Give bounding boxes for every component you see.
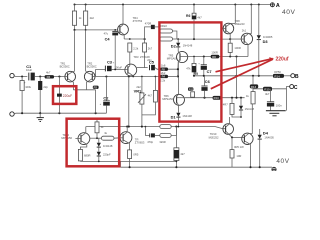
node dots rail [96, 126, 179, 128]
resistor R15 + terminal C [253, 85, 298, 96]
resistor 1k (box2 top) [95, 118, 104, 138]
red callout arrowhead [269, 57, 274, 61]
wire box2 bottom row [80, 160, 176, 162]
svg-text:1N4005: 1N4005 [264, 135, 274, 139]
resistor R11 [188, 87, 195, 97]
svg-text:C6: C6 [205, 79, 211, 84]
terminal A (+40V) [270, 3, 280, 9]
ground terminal [10, 112, 14, 116]
svg-text:680R: 680R [84, 153, 90, 157]
wirewound resistor pair in box (parallel) [159, 24, 177, 41]
svg-text:R13: R13 [214, 96, 220, 100]
capacitor + resistor NFB lower branch [145, 127, 176, 144]
svg-text:BC550C: BC550C [87, 65, 97, 69]
red highlight box2 (bottom left) [67, 119, 120, 167]
wire input row y=76.5 [14, 75, 65, 78]
capacitor C2 220uF (in box1) [57, 94, 72, 98]
resistor below (bias) [143, 39, 153, 68]
wire y=29.9 [74, 29, 118, 31]
svg-text:47k: 47k [186, 66, 191, 70]
transistor TR8 MJE243 [222, 5, 245, 40]
svg-text:B: B [295, 74, 299, 80]
svg-text:MJE252: MJE252 [209, 135, 219, 139]
resistor 4k7 mid [142, 77, 158, 115]
svg-text:R15: R15 [264, 87, 270, 91]
svg-text:R6: R6 [186, 14, 190, 18]
transistor TR5 MPSA06 [167, 51, 188, 94]
svg-text:100n: 100n [276, 104, 282, 108]
svg-text:D4: D4 [263, 131, 269, 136]
wire driver rail y=126.6 [86, 126, 160, 128]
svg-text:22n: 22n [147, 58, 152, 62]
capacitor C6 [201, 76, 210, 98]
svg-text:10R: 10R [236, 154, 241, 158]
trimmer VR1 [134, 77, 146, 127]
svg-text:4k7: 4k7 [46, 71, 51, 75]
svg-text:470p: 470p [147, 140, 153, 144]
ground symbol right [266, 89, 287, 116]
wire to Q2 collector [86, 30, 87, 73]
svg-text:4k7: 4k7 [265, 92, 270, 96]
resistor 470R [145, 21, 159, 29]
svg-text:1N4148: 1N4148 [245, 107, 255, 111]
svg-text:100R: 100R [234, 46, 240, 50]
wire bottom negative rail [121, 161, 273, 167]
wire feedback row y=76.5 to R4 [95, 76, 160, 78]
node dots bottom rail [129, 166, 261, 168]
svg-text:22p: 22p [43, 85, 48, 89]
red callout line lower (to C6) [211, 59, 273, 89]
capacitor C5 22n [147, 58, 157, 70]
ground symbol [37, 113, 44, 121]
transistor TR10 MJE253 [209, 117, 234, 139]
transistor TR13 ZTX653 [120, 127, 145, 150]
node dots input row [21, 75, 60, 77]
svg-text:ZTX653: ZTX653 [135, 141, 145, 145]
svg-text:1N4148: 1N4148 [183, 44, 193, 48]
resistor TR13 emitter 68R [128, 150, 139, 167]
red callout line upper (to C7) [216, 59, 273, 72]
svg-text:2k7: 2k7 [148, 46, 153, 50]
resistor VAS load 2k2 [128, 38, 139, 66]
resistor R6 4k7 [186, 5, 202, 40]
wire TR11 base row [232, 136, 244, 138]
node rail junction dots [74, 4, 260, 6]
diode mid 1N4148 [239, 98, 255, 118]
transistor TR12 (in box2) [61, 127, 89, 150]
resistor R1 100k [20, 77, 32, 114]
wire VAS output vertical [128, 77, 130, 127]
svg-text:220uf: 220uf [276, 57, 289, 63]
svg-text:0R22: 0R22 [160, 24, 167, 28]
wire y=39.2 to TR8 emitter node [177, 38, 230, 40]
diode D3 1N4005 [257, 5, 273, 76]
svg-text:C4: C4 [105, 37, 111, 42]
node dots y=75.8 [193, 75, 260, 77]
resistor horizontal (box2) [90, 131, 120, 140]
wire y=97.7 bias row [185, 97, 245, 99]
svg-text:2.2k: 2.2k [160, 79, 166, 83]
svg-text:220pF: 220pF [103, 153, 111, 157]
resistor row R5 [157, 64, 178, 72]
diode D4 1N4005 [258, 129, 275, 167]
resistor R3 [73, 86, 98, 114]
svg-text:TR3: TR3 [133, 55, 139, 59]
svg-text:40V: 40V [282, 9, 296, 16]
svg-text:47u: 47u [104, 32, 109, 36]
wire up to 470R [145, 27, 151, 39]
svg-text:10uF: 10uF [26, 68, 32, 72]
svg-text:1N4148: 1N4148 [182, 114, 192, 118]
capacitor C1 10uF [24, 64, 35, 85]
capacitor 100n right [267, 88, 282, 111]
svg-text:2k1: 2k1 [242, 29, 247, 33]
wire to Q1 collector [74, 30, 76, 72]
node dots y=97.7 [203, 97, 242, 99]
node dots ground row [21, 112, 97, 114]
svg-text:4k7: 4k7 [180, 152, 185, 156]
capacitor C4 [104, 30, 119, 70]
transistor TR11 [234, 104, 253, 167]
resistor R7 1k [72, 5, 82, 30]
capacitor C7 [198, 57, 211, 76]
capacitor C3 100uF [96, 59, 125, 76]
node dots y=39.2 [177, 38, 231, 40]
node dot C4 join [114, 69, 116, 71]
resistor R13 mid [213, 96, 229, 107]
svg-text:4k7: 4k7 [148, 94, 153, 98]
resistor row R4 [160, 71, 168, 83]
svg-text:MPSA56: MPSA56 [162, 97, 173, 101]
diode D1 1N4148 [171, 113, 193, 127]
svg-text:100k: 100k [25, 85, 31, 89]
red highlight box1 (C2 220uF) [53, 86, 76, 104]
resistor NFB top [160, 125, 171, 129]
svg-text:1k8: 1k8 [161, 64, 166, 68]
wire box1 vertical x=59.4 [58, 77, 60, 114]
diodes bias (box2) [97, 138, 113, 161]
svg-text:R4: R4 [162, 75, 166, 79]
transistor TR3 ZTX108 [125, 55, 150, 77]
svg-text:C7: C7 [207, 69, 212, 74]
resistor 68R [230, 98, 241, 117]
svg-text:R3: R3 [94, 86, 98, 90]
wire ground row y=113.2 [14, 112, 106, 114]
resistor R13 right chain [246, 76, 258, 104]
red highlight box big (center) [159, 22, 221, 121]
transistor TR1 BC550C [60, 61, 76, 89]
svg-text:4k7: 4k7 [197, 15, 202, 19]
svg-text:2k2: 2k2 [161, 71, 166, 75]
resistor 10R TR10 emitter [230, 137, 241, 167]
resistor R2 4k7 [45, 71, 54, 80]
svg-text:470R: 470R [145, 21, 151, 25]
svg-text:D3: D3 [263, 39, 269, 44]
svg-text:D1: D1 [171, 114, 177, 119]
transistor TR4 ZTX753 [118, 5, 143, 40]
svg-text:C: C [294, 85, 298, 91]
svg-text:R8: R8 [212, 55, 216, 59]
wire y=75.8 bootstrap/output row [194, 75, 273, 77]
svg-text:R11: R11 [189, 87, 194, 91]
svg-text:R2: R2 [47, 75, 51, 79]
svg-text:0R5: 0R5 [133, 152, 138, 156]
diode D2 1N4148 [171, 39, 193, 51]
node R5/R4 join vertical [168, 62, 179, 77]
node dot [144, 38, 146, 40]
svg-text:1N4148: 1N4148 [103, 144, 113, 148]
input terminal [10, 73, 14, 77]
wire top positive rail [75, 4, 271, 6]
transistor TR6 MPSA56 (bias) [162, 94, 185, 113]
svg-text:BC550C: BC550C [60, 65, 70, 69]
resistor TR8 emitter 100R [228, 39, 241, 56]
svg-text:2k2: 2k2 [90, 16, 95, 20]
transistor TR2 BC550C [84, 61, 96, 89]
resistor R8 [211, 51, 220, 59]
capacitor C2b path / C2 electrolytic [100, 77, 110, 114]
svg-text:220uF: 220uF [63, 94, 72, 98]
svg-text:40V: 40V [276, 158, 289, 165]
terminal D (-40V) [272, 167, 276, 171]
svg-text:MJE243: MJE243 [235, 22, 245, 26]
resistor 680R (box2) [78, 149, 90, 161]
svg-text:R5: R5 [162, 67, 166, 71]
transistor TR9 [230, 5, 252, 57]
svg-text:0R5 1W: 0R5 1W [234, 145, 244, 149]
resistor R9 47k [186, 57, 198, 77]
wire y=56.5 R8 row [188, 56, 248, 58]
svg-text:A: A [276, 3, 280, 9]
resistor R14 + terminal B [273, 70, 299, 80]
resistor 2k2 [84, 5, 95, 30]
resistor 4k7 NFB down [174, 127, 185, 168]
node dots feedback row [105, 75, 156, 77]
svg-text:4R7: 4R7 [223, 102, 228, 106]
wire TR4 emitter row y=39 [124, 38, 144, 40]
svg-text:R14: R14 [274, 74, 280, 78]
node dots y=29.9 [73, 29, 116, 31]
capacitor 22p [38, 77, 48, 114]
svg-text:D2: D2 [171, 43, 177, 48]
wire mid vertical x=236.5 [236, 57, 238, 98]
svg-text:R13: R13 [251, 85, 257, 89]
node dots y=56.5 [193, 55, 237, 57]
svg-text:2.2k: 2.2k [133, 46, 139, 50]
svg-text:ZTX753: ZTX753 [133, 19, 143, 23]
svg-text:3k9R: 3k9R [159, 140, 165, 144]
